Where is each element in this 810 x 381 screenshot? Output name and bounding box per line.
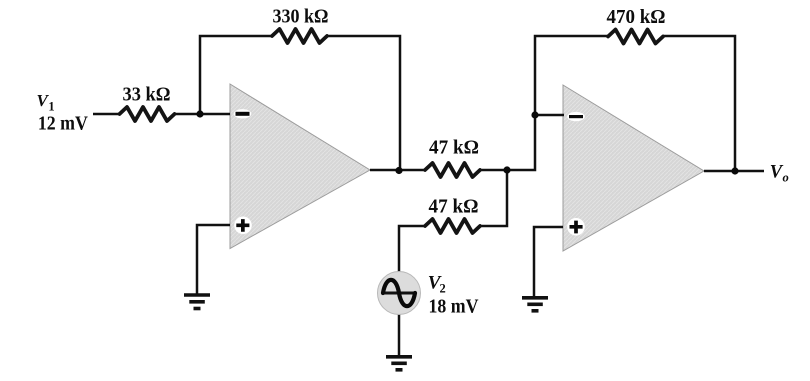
svg-text:18 mV: 18 mV <box>429 296 479 317</box>
svg-text:47 kΩ: 47 kΩ <box>429 197 479 218</box>
svg-text:330 kΩ: 330 kΩ <box>273 7 329 28</box>
svg-text:33 kΩ: 33 kΩ <box>123 85 171 106</box>
svg-text:47 kΩ: 47 kΩ <box>429 138 479 159</box>
svg-text:o: o <box>783 170 789 184</box>
svg-text:12 mV: 12 mV <box>38 114 88 135</box>
svg-text:470 kΩ: 470 kΩ <box>607 7 666 28</box>
svg-text:1: 1 <box>48 100 54 114</box>
svg-text:2: 2 <box>440 281 446 295</box>
